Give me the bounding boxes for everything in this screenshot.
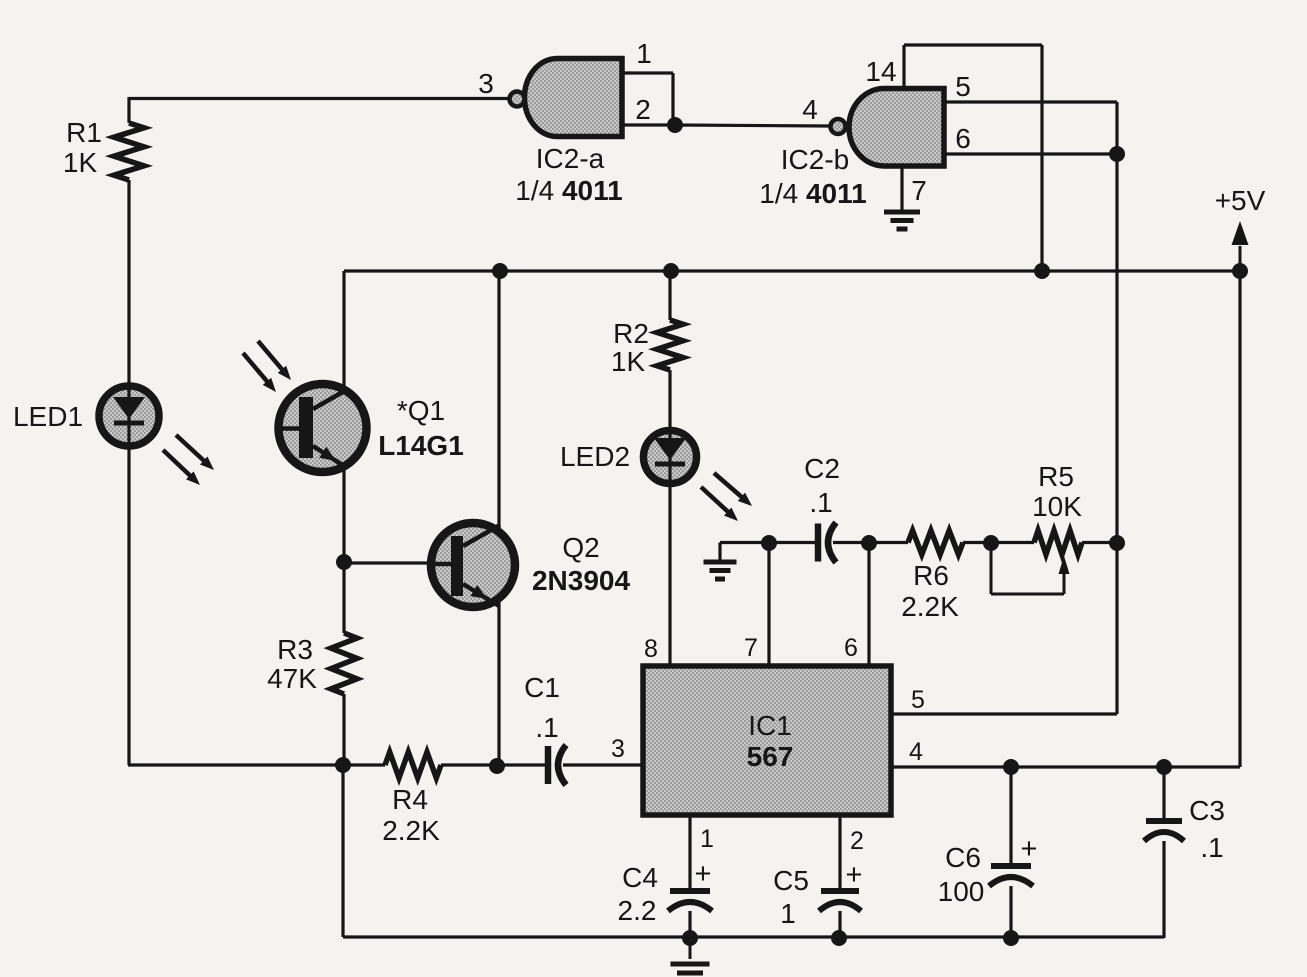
svg-text:10K: 10K (1032, 491, 1082, 522)
svg-text:C1: C1 (524, 672, 560, 703)
svg-text:2.2: 2.2 (618, 895, 657, 926)
svg-text:R5: R5 (1038, 461, 1074, 492)
svg-text:.1: .1 (809, 487, 832, 518)
svg-text:2: 2 (850, 827, 864, 855)
svg-text:R4: R4 (392, 784, 428, 815)
svg-text:C4: C4 (622, 862, 658, 893)
svg-text:8: 8 (644, 635, 658, 663)
svg-text:7: 7 (911, 175, 927, 206)
svg-text:R3: R3 (277, 634, 313, 665)
svg-text:R6: R6 (913, 560, 949, 591)
svg-text:+: + (1021, 833, 1038, 865)
svg-text:2N3904: 2N3904 (532, 565, 631, 596)
svg-text:C3: C3 (1189, 795, 1225, 826)
svg-text:R2: R2 (613, 318, 649, 349)
svg-text:IC2-a: IC2-a (536, 143, 605, 174)
svg-text:1: 1 (636, 38, 652, 69)
svg-text:*Q1: *Q1 (397, 395, 445, 426)
svg-text:IC2-b: IC2-b (781, 144, 849, 175)
svg-text:R1: R1 (66, 117, 102, 148)
svg-text:3: 3 (611, 735, 625, 763)
svg-text:4: 4 (909, 738, 923, 766)
svg-text:2: 2 (635, 94, 651, 125)
svg-text:3: 3 (478, 68, 494, 99)
svg-text:1/4 4011: 1/4 4011 (515, 175, 622, 206)
svg-text:6: 6 (955, 123, 971, 154)
svg-text:+: + (846, 859, 863, 891)
svg-text:1K: 1K (63, 147, 98, 178)
svg-text:47K: 47K (267, 663, 317, 694)
svg-text:LED2: LED2 (560, 441, 630, 472)
svg-text:Q2: Q2 (562, 532, 599, 563)
svg-text:LED1: LED1 (13, 401, 83, 432)
svg-text:1: 1 (700, 825, 714, 853)
svg-text:L14G1: L14G1 (378, 430, 464, 461)
svg-text:IC1: IC1 (748, 710, 792, 741)
svg-text:1: 1 (780, 898, 796, 929)
svg-text:2.2K: 2.2K (382, 815, 440, 846)
svg-text:6: 6 (844, 634, 858, 662)
svg-text:5: 5 (955, 71, 971, 102)
svg-text:5: 5 (911, 686, 925, 714)
svg-text:C2: C2 (804, 453, 840, 484)
svg-text:567: 567 (747, 741, 794, 772)
svg-text:14: 14 (865, 56, 896, 87)
svg-text:.1: .1 (535, 712, 558, 743)
svg-text:7: 7 (744, 634, 758, 662)
svg-text:.1: .1 (1200, 832, 1223, 863)
svg-text:2.2K: 2.2K (901, 591, 959, 622)
svg-text:C5: C5 (773, 865, 809, 896)
svg-text:C6: C6 (945, 842, 981, 873)
svg-text:1/4 4011: 1/4 4011 (759, 178, 866, 209)
svg-text:1K: 1K (611, 346, 646, 377)
svg-text:+: + (695, 858, 712, 890)
svg-text:4: 4 (802, 94, 818, 125)
svg-text:+5V: +5V (1215, 185, 1266, 216)
svg-text:100: 100 (938, 876, 985, 907)
